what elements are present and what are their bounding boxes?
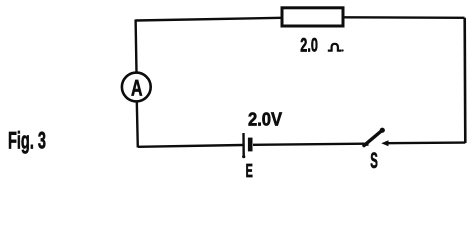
- switch S contact arrowhead: [381, 140, 388, 146]
- wire top-right horizontal: [344, 16, 465, 19]
- wire top-left horizontal: [136, 18, 282, 21]
- label 2.0V (battery voltage): [248, 109, 282, 129]
- wire bottom-middle (battery to switch): [253, 144, 365, 145]
- wire right vertical: [463, 18, 466, 143]
- svg-text:E: E: [246, 160, 253, 180]
- wire left vertical lower: [137, 102, 138, 148]
- ammeter A: [122, 73, 151, 102]
- switch S lever: [363, 128, 385, 146]
- svg-text:S: S: [370, 148, 378, 173]
- resistor R 2.0 ohm: [282, 8, 343, 26]
- label Fig. 3: [8, 128, 46, 155]
- ammeter letter A: [131, 75, 143, 100]
- label S (switch): [370, 148, 378, 173]
- wire left vertical upper: [134, 20, 137, 73]
- wire bottom-right (switch to corner): [386, 141, 465, 144]
- battery E short thick plate: [248, 138, 253, 152]
- svg-text:2.0: 2.0: [300, 35, 318, 57]
- battery E long plate: [242, 133, 245, 158]
- wire bottom-left (corner to battery): [138, 145, 243, 147]
- label E (battery): [246, 160, 253, 181]
- label 2.0 (resistor value digits): [300, 35, 318, 57]
- svg-text:Fig. 3: Fig. 3: [8, 128, 46, 155]
- svg-text:A: A: [131, 75, 143, 100]
- label ohm symbol: [328, 44, 344, 52]
- svg-text:2.0V: 2.0V: [248, 109, 282, 129]
